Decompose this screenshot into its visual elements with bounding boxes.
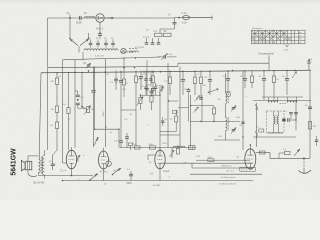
component right of V1 — [76, 155, 80, 162]
output transformer core — [41, 157, 42, 174]
label x121 bottom — [110, 132, 113, 134]
label 5000 vertical — [103, 111, 105, 117]
tiny text row under coil L2 — [95, 56, 105, 58]
wire V3 bottom — [159, 169, 161, 181]
resistor x124 — [122, 58, 129, 97]
label 100 x68 — [62, 104, 66, 106]
wire h 131 seg — [160, 130, 176, 132]
capacitor C17 x121 low — [114, 137, 123, 148]
IF2 core dashes — [275, 115, 277, 126]
loudspeaker — [21, 160, 31, 171]
wire x57 low — [56, 113, 58, 123]
IF3 core dashes — [280, 103, 287, 105]
arrow on heater wire — [108, 17, 114, 19]
wire h 163 mid bottom — [160, 162, 253, 164]
tick mark x171 — [168, 14, 171, 17]
wire x57 bottom — [53, 129, 57, 156]
switch contact bottom2 — [112, 168, 121, 176]
coil L4 bottom — [173, 146, 185, 148]
junction x191 dots — [190, 105, 202, 122]
wire x82 drop — [81, 73, 83, 107]
table pointer mark — [286, 45, 289, 48]
coil L1 on top wire — [84, 12, 95, 18]
capacitor x147 — [145, 88, 149, 95]
trimmer arrow x196 low — [194, 107, 199, 113]
wire x147 vertical — [146, 60, 148, 88]
junction det dots — [242, 119, 296, 137]
resistor R4 — [51, 78, 59, 85]
wire heater line top right segment — [174, 17, 212, 19]
resistor right V3 — [176, 145, 179, 154]
label 5000 osc — [237, 117, 241, 119]
capacitor C12 x228 — [223, 71, 231, 94]
capacitor C20 det — [288, 118, 296, 122]
label bottom extra4 — [184, 162, 188, 164]
resistor R10 x153 — [151, 71, 154, 89]
resistor R20 x214 — [212, 106, 215, 122]
wire h 180 bottom left — [63, 180, 163, 182]
wire V1 bottom — [71, 169, 73, 177]
mains plug curve — [299, 169, 312, 173]
label 0,1 v2 — [108, 159, 112, 161]
label bottom extra2 — [104, 184, 107, 186]
IF2 winding b — [277, 111, 278, 133]
tube V2 diode bump — [106, 161, 111, 166]
trimmer T2 mid — [231, 128, 236, 134]
wire x160 vertical — [159, 85, 161, 151]
capacitor C7 x121 — [119, 71, 123, 138]
small rect above C22 — [128, 143, 133, 150]
wire h 133 det — [268, 132, 284, 134]
wire V2 top — [103, 148, 105, 151]
label 2M mid — [123, 89, 126, 91]
label 0,2 mid4 — [197, 74, 201, 76]
capacitor C19 x151 — [150, 88, 154, 96]
label CBC1 — [150, 173, 154, 176]
wire V3 top — [159, 148, 161, 151]
band switch lever — [94, 137, 99, 146]
switch arm S1a — [69, 38, 78, 46]
rect component x262 low — [256, 127, 264, 133]
label bottom extra1 — [78, 179, 80, 181]
capacitor C5b — [76, 103, 85, 108]
capacitor group top mid — [143, 37, 154, 45]
wire transformer p top — [43, 150, 45, 156]
label x160 bottom — [162, 143, 167, 145]
output transformer winding s — [39, 159, 41, 172]
capacitor C10 x183 — [181, 71, 185, 96]
label 20 x105 — [107, 74, 110, 76]
junction heater wire — [178, 17, 180, 19]
wire h 29 top — [160, 29, 175, 33]
capacitor C5 block — [76, 95, 85, 101]
caps row det right — [289, 113, 298, 120]
label 50 C21 — [49, 161, 52, 163]
resistor R9 x136 — [134, 71, 137, 147]
label under table — [284, 50, 289, 52]
label Vorsatzgeraet — [258, 52, 274, 56]
label fuse — [182, 12, 187, 15]
component right V3 arrow — [170, 148, 175, 158]
label cluster — [147, 85, 151, 87]
antenna symbol right a — [307, 58, 313, 70]
wire h 175 bottom — [39, 175, 94, 177]
wire h 105 mid — [191, 105, 214, 107]
arrow mid x216 — [208, 89, 219, 93]
capacitor on x188 — [187, 88, 191, 122]
label under 174 — [221, 176, 236, 179]
resistor R6 — [51, 122, 59, 129]
wire V3 left — [148, 155, 155, 160]
wire x190 vertical — [190, 95, 192, 146]
capacitor C11 x210 — [205, 71, 213, 96]
wire coil left drop — [82, 52, 84, 60]
resistor R21 V4 right — [260, 151, 266, 154]
wire x105 vertical — [105, 59, 106, 147]
label tube V3 — [163, 170, 170, 173]
label 0,1 det — [284, 111, 288, 113]
core dashes L3 — [129, 47, 139, 49]
label tube V2 — [100, 170, 117, 174]
IF3 stubs — [269, 97, 297, 103]
trimmer capacitor CT2 — [96, 38, 100, 48]
wire x201 vertical — [201, 95, 203, 122]
resistor R22 x176 — [170, 116, 178, 122]
capacitor cluster b — [149, 70, 153, 86]
label 5641GW — [10, 148, 17, 176]
resistor R14 x252 — [250, 71, 253, 89]
wire x176 stubs — [175, 110, 177, 132]
capacitor C22 x131 bottom — [127, 169, 133, 181]
oscillator coil L3 — [129, 51, 138, 53]
junction r20 — [213, 121, 214, 122]
junction dots on HT bus — [56, 70, 287, 74]
label Schaltbild — [33, 182, 45, 184]
resistor R5 — [51, 106, 59, 113]
label R9 — [138, 79, 142, 81]
osc coil lower — [226, 117, 229, 131]
tube V3 CBC1 — [155, 150, 165, 169]
wire x225 stubs — [225, 73, 227, 140]
IF3 winding top a — [269, 101, 278, 103]
trimmer T1 mid — [231, 106, 236, 112]
antenna terminal — [67, 11, 71, 19]
resistor R11 x170 — [164, 71, 172, 96]
wire h 137 det — [253, 136, 296, 138]
wire barretter to anode — [104, 17, 112, 19]
wire x119 down — [118, 129, 120, 147]
resistor R13 x201 — [199, 71, 202, 96]
antenna coil winding L2 — [84, 49, 118, 51]
label 4,7 bottom — [83, 155, 85, 157]
label in cable box — [222, 165, 233, 167]
diode blob — [282, 119, 285, 122]
capacitor C13 x245 — [240, 71, 247, 89]
switch contact bottom1 — [89, 173, 98, 180]
label tube V4 — [240, 167, 256, 171]
label 1M mid5 — [203, 85, 206, 87]
resistor R2 top — [154, 30, 163, 36]
small rect x174 — [173, 111, 178, 114]
resistor R15 x274 — [272, 71, 279, 101]
trimmer capacitor CT1 — [88, 38, 92, 48]
wire h x160 135 — [160, 134, 180, 136]
bus line B2 — [48, 63, 179, 68]
capacitor C8 x141 — [139, 71, 143, 91]
wire h x94-x119 — [94, 129, 120, 130]
junction x295 — [292, 70, 297, 78]
label AH1 — [96, 27, 104, 31]
resistor R3 top — [164, 30, 172, 36]
wire drop under barretter — [99, 22, 100, 34]
speaker bottom wire — [28, 170, 37, 177]
wire V2 bottom — [103, 169, 105, 181]
label row top mid — [135, 47, 145, 49]
wire B1 left vertical — [63, 60, 67, 163]
coil box L5 bottom — [189, 146, 196, 150]
resistor R16 right edge — [308, 122, 315, 130]
wire h 174.2 bottom right — [190, 173, 262, 175]
fuse F1 — [182, 16, 189, 20]
wire drop x174 — [173, 18, 177, 29]
wire x296 det — [295, 101, 297, 131]
dial lamp circle — [121, 48, 126, 53]
label 60 osc — [218, 99, 221, 101]
bus line B3 HT rail — [41, 70, 311, 73]
wire x140 stub — [139, 95, 141, 110]
wire x94 vertical — [94, 67, 96, 130]
wire h 140 osc — [214, 139, 240, 141]
volume pot R8 — [84, 106, 94, 115]
tiny label right top — [146, 30, 150, 32]
wire h 95 upper mid — [140, 95, 160, 96]
wire x310 right edge — [309, 70, 311, 158]
capacitor cluster a — [144, 70, 148, 86]
resistor R17 bottom — [133, 144, 140, 149]
label mid extra8 — [148, 125, 150, 127]
wire h 180.6 right — [162, 180, 253, 182]
trimmer capacitor CT3 — [104, 38, 108, 48]
junction bus1 dots — [123, 57, 161, 72]
capacitor x116 — [110, 71, 118, 91]
output transformer winding p — [42, 156, 44, 175]
wire 152 to 158 — [269, 153, 271, 159]
capacitor C1 5000 — [76, 16, 82, 25]
wire h 110 seg — [121, 109, 136, 111]
capacitor C6 — [91, 67, 95, 148]
wire x75 vertical — [74, 60, 76, 148]
small circle osc grid — [226, 70, 233, 97]
IF2 shield box dashed — [266, 111, 284, 133]
capacitor stub 3 — [157, 38, 161, 44]
wire transformer p bottom — [43, 175, 45, 179]
capacitor C16 right edge — [305, 105, 313, 109]
capacitor C14 x264 — [259, 71, 267, 101]
cable box second line — [192, 163, 253, 168]
wire heater end — [190, 16, 212, 20]
IF2 winding a — [273, 111, 274, 133]
uC trimmer symbol — [83, 62, 91, 72]
pot with arrow x140 — [137, 94, 144, 105]
wire B3 left vertical — [39, 73, 41, 160]
label 0,5 mid — [143, 74, 147, 76]
dashed drop to mains — [303, 158, 305, 169]
label under 180 — [153, 182, 237, 187]
label mid extra9 — [130, 114, 133, 116]
trimmer arrow x197 — [195, 96, 200, 102]
cap small x162 — [161, 117, 168, 126]
trimmer capacitor CT4 — [111, 38, 115, 48]
label 50 v3 — [149, 162, 152, 164]
label 100 mid2 — [155, 85, 159, 87]
mains switch arrow — [294, 149, 300, 156]
wire switch common — [78, 46, 80, 53]
wire V4 top — [250, 144, 252, 149]
label mid extra5 — [219, 136, 223, 138]
component x287 mains — [283, 149, 290, 155]
wire x256 vertical — [255, 103, 258, 147]
label under coils — [120, 51, 135, 54]
resistor R7 — [67, 108, 71, 121]
label 5000 mid3 — [185, 89, 190, 91]
label C7 — [115, 78, 119, 80]
wire x243 vertical — [242, 70, 244, 150]
capacitor C9 x153 — [151, 89, 155, 96]
capacitor cluster d — [154, 83, 158, 95]
wire h 108 seg — [178, 107, 189, 109]
wire transformer s bottom — [38, 172, 40, 175]
wire x168 vertical — [167, 63, 169, 148]
resistor R19 x151 — [150, 96, 153, 110]
capacitor cluster c — [144, 87, 148, 95]
wire x77 stub top — [75, 91, 78, 95]
wire h 101 seg — [169, 100, 178, 102]
wire V4 right lead — [256, 152, 270, 154]
label 2000 det — [255, 109, 259, 111]
tube V2 triode — [99, 151, 109, 169]
wire mains right — [279, 153, 285, 158]
label 50 left det — [240, 122, 245, 127]
capacitor C18 x127 — [125, 133, 129, 148]
label mid extra6 — [246, 96, 248, 98]
wire vorsatz stub — [268, 56, 270, 71]
switch arm S1b — [80, 33, 89, 46]
label tube V1 — [60, 169, 67, 173]
capacitor under barretter — [98, 34, 102, 39]
label 0,1 x57 — [59, 76, 63, 78]
wire x57 mid — [56, 85, 58, 107]
wire y160 with rect — [196, 157, 250, 162]
label fuse below — [182, 22, 187, 25]
label x147 — [141, 86, 144, 88]
wire V1 top — [71, 147, 73, 150]
label bottom extra3 — [169, 177, 171, 179]
wire x68 drop — [68, 73, 70, 108]
label 1M det — [289, 126, 291, 128]
cap right low extra — [315, 136, 319, 146]
wire x68 bottom — [68, 114, 70, 151]
wire stub caps top — [145, 38, 149, 44]
resistor R18 bottom — [149, 144, 156, 149]
wire heater line top — [48, 17, 175, 19]
resistor drop x57 — [56, 73, 58, 78]
label near T4 bottom — [196, 156, 201, 158]
wire x180 vertical — [179, 67, 181, 148]
tube V1 output CL4 — [66, 150, 76, 169]
resistor R12 x195 — [193, 71, 196, 96]
capacitor C23 x201 top — [199, 95, 203, 99]
speaker top wire — [28, 156, 39, 161]
wire h 158 right — [270, 158, 310, 160]
wire h bottom mid — [119, 147, 196, 149]
wire h 121 — [190, 121, 240, 123]
avc arrow x162 — [159, 85, 164, 93]
IF3 winding top b — [288, 101, 297, 103]
wire antenna drop — [69, 18, 71, 38]
wire left vertical from antenna line — [47, 18, 49, 67]
wire h 100 right — [253, 100, 311, 102]
wire pot junction — [82, 107, 87, 110]
label left V4 — [237, 157, 240, 159]
wire x47 vertical lower — [47, 68, 49, 150]
tube V4 rectifier right — [245, 149, 256, 169]
junction 180 — [62, 180, 64, 182]
label under box — [226, 170, 235, 172]
wire h 97 over IF3 — [262, 96, 303, 98]
dot x168 y101 — [168, 100, 169, 101]
switch position table — [251, 27, 305, 44]
capacitor C15 x287 — [281, 70, 289, 95]
label under C22 — [127, 183, 133, 185]
label mid extra7 — [125, 119, 129, 121]
barretter lamp U1 — [96, 14, 104, 22]
electrolytic C21 — [51, 155, 57, 170]
bus line B4 — [178, 62, 269, 64]
cap element avc top — [158, 54, 177, 61]
osc coil upper — [226, 94, 229, 104]
cap hook x228 — [226, 91, 231, 92]
bus line B1 — [63, 57, 161, 60]
